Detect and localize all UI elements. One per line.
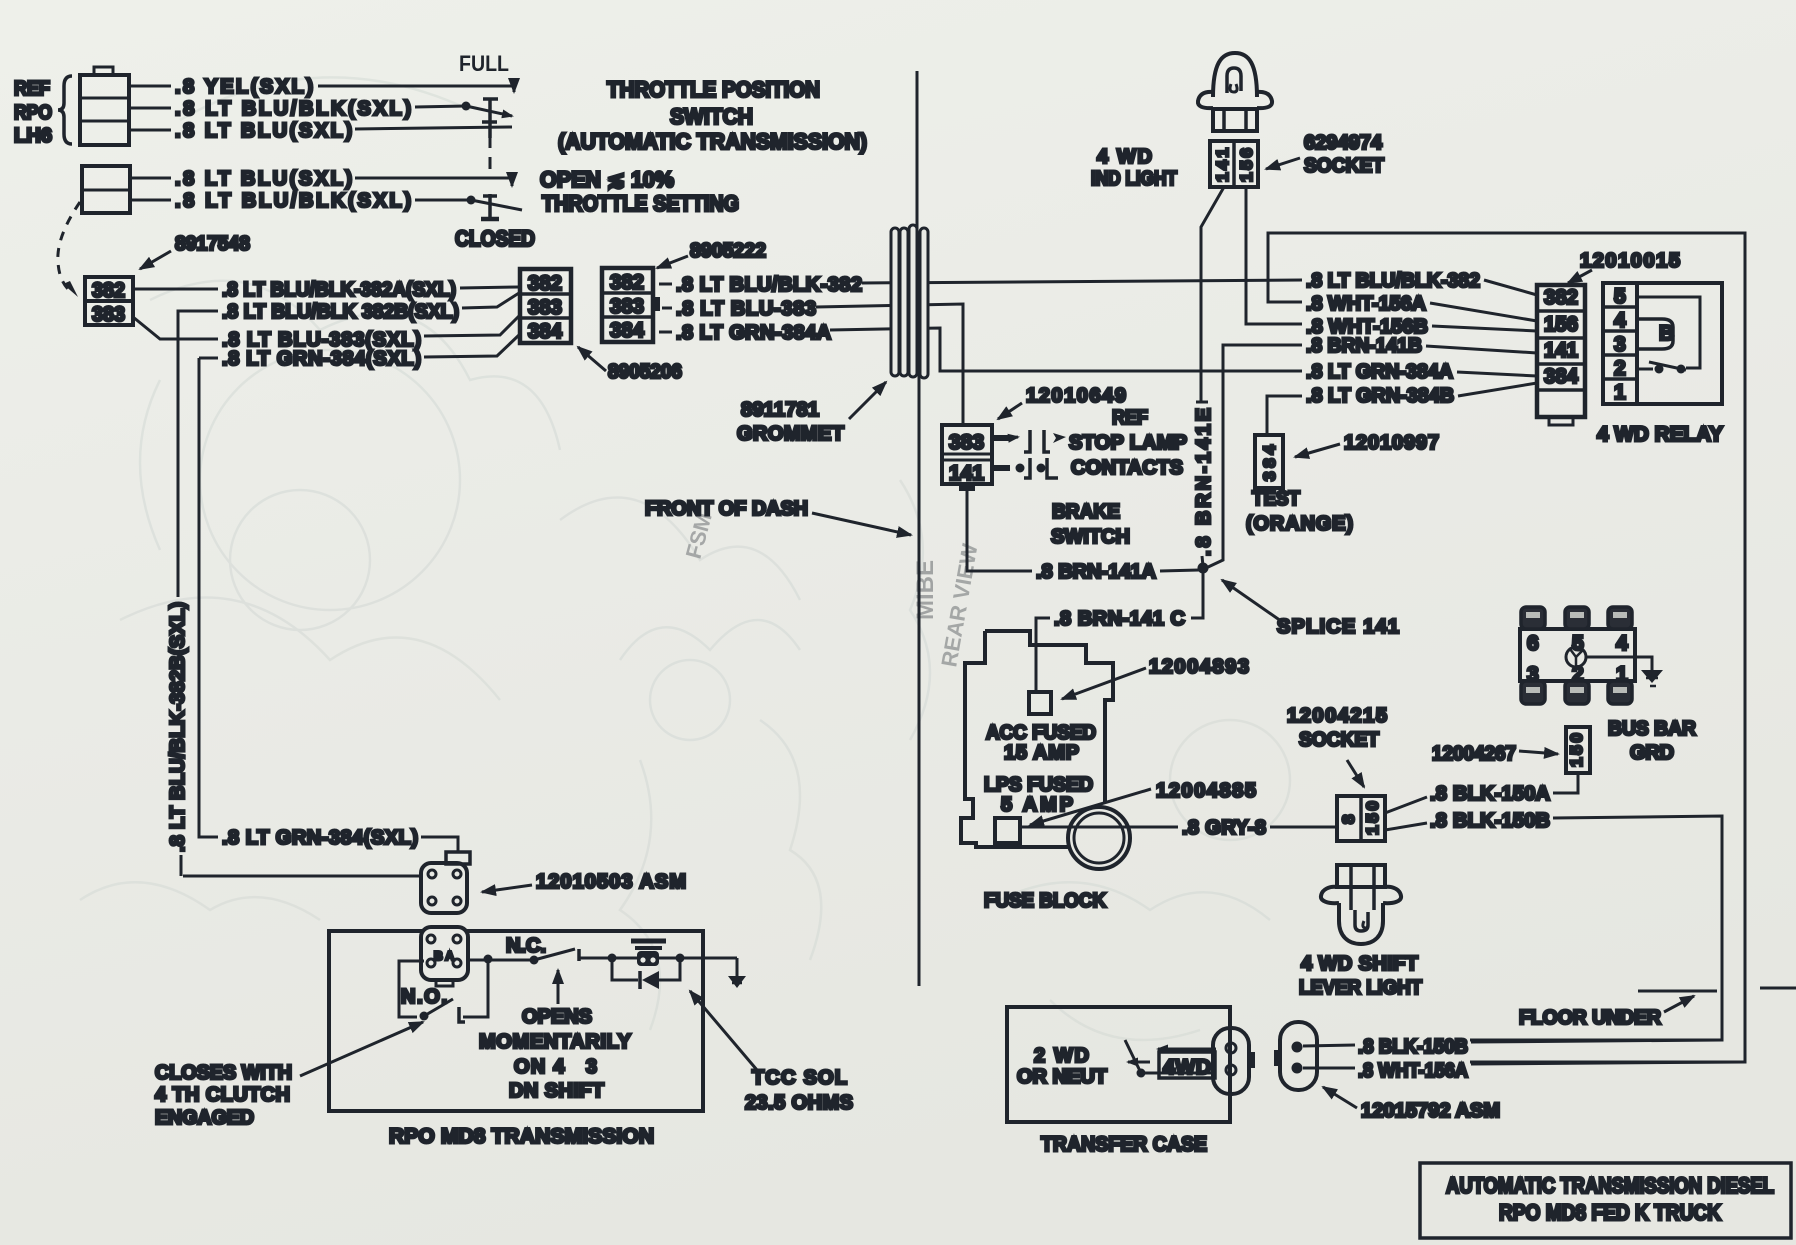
svg-text:383: 383: [528, 296, 562, 319]
svg-text:STOP LAMP: STOP LAMP: [1069, 432, 1187, 454]
svg-text:150: 150: [1567, 733, 1586, 767]
svg-text:RPO MD8 FED K TRUCK: RPO MD8 FED K TRUCK: [1499, 1200, 1721, 1225]
svg-text:SWITCH: SWITCH: [1051, 526, 1130, 548]
svg-text:AUTOMATIC TRANSMISSION DIESEL: AUTOMATIC TRANSMISSION DIESEL: [1446, 1173, 1774, 1198]
svg-text:(AUTOMATIC TRANSMISSION): (AUTOMATIC TRANSMISSION): [558, 129, 867, 154]
busbar ground block: [1520, 607, 1635, 704]
solenoid TCC: [608, 941, 685, 966]
wire main line to N.C.: [468, 959, 530, 962]
svg-text:384: 384: [528, 320, 562, 343]
ground from busbar: [1586, 657, 1652, 670]
wire front-of-dash vertical: [916, 71, 919, 231]
svg-text:8905206: 8905206: [608, 361, 682, 383]
wire .8 BRN-141 C: [1191, 573, 1203, 618]
svg-text:.8 BRN-141 C: .8 BRN-141 C: [1054, 608, 1185, 630]
svg-text:3: 3: [1527, 663, 1539, 686]
wire 384B from TEST: [1267, 396, 1302, 435]
svg-text:LEVER LIGHT: LEVER LIGHT: [1299, 977, 1422, 999]
brace: [58, 76, 72, 144]
ground: [728, 958, 746, 988]
svg-text:OR NEUT: OR NEUT: [1017, 1066, 1107, 1088]
svg-text:B A: B A: [434, 949, 454, 963]
svg-text:4: 4: [1614, 309, 1626, 332]
connector TEST (ORANGE) 384: [1255, 435, 1283, 488]
svg-text:FUSE BLOCK: FUSE BLOCK: [984, 890, 1107, 912]
svg-text:141: 141: [949, 462, 984, 485]
svg-text:150: 150: [1363, 801, 1382, 835]
svg-text:CLOSED: CLOSED: [455, 226, 535, 251]
wire 141B riser: [1206, 345, 1302, 568]
transfer case box: [1007, 1007, 1230, 1122]
svg-text:12010503 ASM: 12010503 ASM: [536, 871, 686, 893]
connector 382: [85, 277, 133, 302]
wire 156A loop top: [1268, 233, 1745, 1062]
connector 8905222: [602, 268, 660, 342]
svg-text:SOCKET: SOCKET: [1304, 155, 1384, 177]
svg-text:TEST: TEST: [1252, 488, 1300, 510]
svg-text:8911781: 8911781: [741, 399, 819, 421]
svg-text:.8 WHT-156A: .8 WHT-156A: [1306, 293, 1426, 315]
switch N.O.: [401, 963, 488, 1022]
svg-text:.8 BLK-150B: .8 BLK-150B: [1430, 810, 1550, 832]
fuse block outline: [985, 631, 1113, 803]
diode (TCC bypass): [612, 958, 680, 989]
wire .8 LT BLU(SXL) row3: [129, 129, 171, 132]
svg-text:.8 LT GRN-384B: .8 LT GRN-384B: [1306, 385, 1454, 407]
svg-text:156: 156: [1237, 148, 1256, 182]
svg-text:OPEN ≲ 10%: OPEN ≲ 10%: [540, 167, 674, 192]
connector transmission (BA): [421, 927, 468, 986]
svg-text:4 WD: 4 WD: [1097, 146, 1152, 168]
svg-text:4 WD RELAY: 4 WD RELAY: [1597, 423, 1723, 446]
svg-text:2 WD: 2 WD: [1034, 1045, 1089, 1067]
svg-text:12015792 ASM: 12015792 ASM: [1361, 1100, 1500, 1122]
wire .8 BRN-141A: [959, 484, 975, 491]
svg-text:1: 1: [1616, 663, 1628, 686]
title box: [1420, 1163, 1791, 1238]
svg-text:384: 384: [1544, 365, 1578, 388]
svg-text:382: 382: [528, 272, 562, 295]
svg-text:RPO: RPO: [14, 102, 52, 124]
svg-text:.8 BLK-150A: .8 BLK-150A: [1430, 783, 1550, 805]
svg-text:MIBE: MIBE: [912, 560, 939, 620]
svg-text:12010015: 12010015: [1580, 250, 1680, 272]
wire 383 to brake switch: [816, 304, 963, 425]
svg-text:6: 6: [1527, 632, 1539, 655]
svg-text:8: 8: [1339, 815, 1358, 824]
svg-text:MOMENTARILY: MOMENTARILY: [479, 1031, 632, 1053]
svg-text:.8 LT BLU/BLK-382: .8 LT BLU/BLK-382: [1306, 270, 1480, 292]
wire floor under line: [1638, 990, 1717, 993]
svg-text:.8 LT BLU(SXL): .8 LT BLU(SXL): [175, 168, 352, 190]
wire .8 LT BLU/BLK-382A(SXL): [133, 288, 218, 291]
svg-text:SOCKET: SOCKET: [1299, 729, 1379, 751]
svg-text:.8 BRN-141E: .8 BRN-141E: [1193, 408, 1215, 556]
wire .8 LT BLU-383 label: [662, 307, 672, 310]
wire .8 BLK-150A: [1385, 797, 1427, 813]
svg-text:4 TH CLUTCH: 4 TH CLUTCH: [155, 1084, 290, 1106]
svg-text:12004885: 12004885: [1156, 780, 1256, 802]
svg-text:5: 5: [1614, 285, 1626, 308]
lamp 4WD shift lever light: [1321, 865, 1401, 944]
svg-text:RPO MD8 TRANSMISSION: RPO MD8 TRANSMISSION: [389, 1125, 654, 1148]
svg-text:GRD: GRD: [1630, 742, 1674, 764]
svg-text:.8 BRN-141B: .8 BRN-141B: [1306, 335, 1422, 357]
svg-text:382: 382: [1544, 286, 1578, 309]
connector C2: [82, 166, 130, 213]
svg-text:CLOSES WITH: CLOSES WITH: [155, 1062, 292, 1084]
svg-text:.8 LT GRN-384(SXL): .8 LT GRN-384(SXL): [222, 348, 421, 370]
svg-text:N.C.: N.C.: [506, 935, 546, 957]
svg-text:REF: REF: [14, 78, 50, 100]
relay U1 4WD RELAY: [1603, 283, 1722, 404]
svg-text:382: 382: [92, 279, 125, 302]
wire to ground (transmission): [680, 957, 737, 960]
transmission box RPO MD8: [329, 931, 703, 1111]
svg-text:ACC FUSED: ACC FUSED: [986, 722, 1096, 744]
svg-text:12010649: 12010649: [1026, 385, 1126, 407]
svg-text:BUS BAR: BUS BAR: [1608, 718, 1697, 740]
svg-text:12004893: 12004893: [1149, 656, 1249, 678]
svg-text:OPENS: OPENS: [522, 1006, 592, 1028]
svg-text:141: 141: [1544, 339, 1578, 362]
wire off-page right: [1760, 987, 1796, 990]
svg-text:BRAKE: BRAKE: [1052, 501, 1120, 523]
svg-text:156: 156: [1544, 313, 1578, 336]
connector 12004215 socket (8/150): [1337, 796, 1385, 841]
svg-text:TCC SOL: TCC SOL: [752, 1067, 847, 1089]
svg-text:FLOOR UNDER: FLOOR UNDER: [1519, 1007, 1662, 1029]
svg-text:THROTTLE POSITION: THROTTLE POSITION: [607, 77, 820, 102]
wire dashed throttle switch link: [489, 136, 492, 175]
svg-text:.8 LT BLU/BLK(SXL): .8 LT BLU/BLK(SXL): [175, 98, 411, 120]
dashed arc from C2 to connector 382: [58, 202, 80, 291]
wire 384A long: [830, 328, 1302, 371]
svg-text:B: B: [1659, 322, 1674, 345]
svg-text:.8 LT BLU/BLK-382B(SXL): .8 LT BLU/BLK-382B(SXL): [167, 602, 189, 852]
svg-text:(ORANGE): (ORANGE): [1246, 513, 1353, 535]
brake switch contacts: [992, 430, 1066, 478]
svg-text:383: 383: [92, 303, 125, 326]
svg-text:.8 BLK-150B: .8 BLK-150B: [1358, 1036, 1468, 1058]
svg-text:THROTTLE SETTING: THROTTLE SETTING: [542, 191, 739, 216]
svg-text:4 WD SHIFT: 4 WD SHIFT: [1301, 953, 1418, 975]
wire .8 LT BLU-383(SXL): [133, 317, 218, 339]
svg-text:FRONT OF DASH: FRONT OF DASH: [645, 498, 808, 520]
wire .8 LT GRN-384(SXL): [199, 357, 218, 360]
svg-text:LH6: LH6: [14, 125, 52, 147]
connector brake switch: [942, 425, 992, 485]
throttle position switch upper contact: [462, 98, 513, 138]
wire .8 BLK-150B (transfer): [1303, 1045, 1355, 1046]
wire .8 GRY-8: [1020, 826, 1178, 829]
wire 382 long: [862, 280, 1302, 283]
svg-text:4: 4: [1616, 632, 1628, 655]
wire .8 LT BLU(SXL) row4: [130, 177, 171, 180]
svg-text:5 AMP: 5 AMP: [1001, 794, 1073, 816]
throttle position switch lower contact: [467, 194, 523, 219]
svg-text:SWITCH: SWITCH: [670, 104, 753, 129]
svg-text:12004267: 12004267: [1432, 743, 1516, 765]
svg-text:383: 383: [610, 295, 644, 318]
wire .8 LT BLU/BLK(SXL) row2: [129, 107, 171, 110]
svg-text:383: 383: [949, 431, 984, 454]
wire .8 WHT-156A (transfer): [1303, 1067, 1355, 1070]
svg-text:384: 384: [1260, 444, 1279, 481]
svg-text:.8 WHT-156A: .8 WHT-156A: [1358, 1060, 1468, 1082]
svg-text:DN SHIFT: DN SHIFT: [509, 1080, 604, 1102]
wire .8 LT BLU/BLK 382B(SXL): [178, 311, 218, 597]
svg-text:1: 1: [1614, 381, 1626, 404]
wire 141 socket drop: [1201, 187, 1224, 403]
svg-text:TRANSFER CASE: TRANSFER CASE: [1041, 1133, 1207, 1156]
svg-text:ON 4 3: ON 4 3: [514, 1056, 597, 1078]
svg-text:GROMMET: GROMMET: [737, 423, 844, 445]
grommet 8911781: [891, 225, 928, 378]
svg-text:.8 GRY-8: .8 GRY-8: [1182, 817, 1266, 839]
svg-text:REF: REF: [1112, 407, 1148, 429]
svg-text:2: 2: [1614, 357, 1626, 380]
svg-text:382: 382: [610, 271, 644, 294]
svg-text:.8 LT BLU(SXL): .8 LT BLU(SXL): [175, 120, 352, 142]
lamp 4WD IND LIGHT bulb: [1198, 53, 1272, 131]
connector 12004267 (150): [1566, 727, 1590, 773]
connector 12010015: [1537, 285, 1585, 425]
wire .8 YEL(SXL): [129, 85, 171, 88]
svg-text:12004215: 12004215: [1287, 705, 1387, 727]
svg-text:12010997: 12010997: [1344, 432, 1439, 454]
svg-text:.8 LT BLU/BLK-382: .8 LT BLU/BLK-382: [676, 274, 862, 296]
svg-text:23.5 OHMS: 23.5 OHMS: [745, 1092, 853, 1114]
svg-text:.8 YEL(SXL): .8 YEL(SXL): [175, 76, 313, 98]
pin LPS fuse cavity: [995, 818, 1020, 843]
svg-text:3: 3: [1614, 333, 1626, 356]
switch lever (transfer case): [1125, 1040, 1216, 1078]
svg-text:15 AMP: 15 AMP: [1004, 742, 1079, 764]
wire N.O. loop: [399, 961, 424, 1017]
wire into ASM left: [183, 875, 421, 878]
svg-text:.8 LT GRN-384A: .8 LT GRN-384A: [676, 322, 831, 344]
svg-text:4WD: 4WD: [1163, 1056, 1211, 1079]
wire .8 LT GRN-384A label: [659, 331, 672, 334]
connector oval 12015792: [1274, 1022, 1317, 1090]
connector 12010503 ASM: [421, 852, 470, 913]
svg-text:8917548: 8917548: [175, 233, 250, 255]
connector C1 (REF/RPO/LH6): [80, 67, 129, 145]
switch N.C.: [506, 935, 610, 965]
connector oval (transfer case side): [1213, 1028, 1255, 1094]
svg-text:.8 LT BLU/BLK-382A(SXL): .8 LT BLU/BLK-382A(SXL): [222, 279, 456, 301]
svg-text:8905222: 8905222: [690, 240, 766, 262]
connector 6294974 socket: [1210, 141, 1258, 187]
node splice 141: [1198, 563, 1209, 574]
svg-text:FULL: FULL: [459, 51, 509, 76]
svg-text:.8 LT BLU/BLK 382B(SXL): .8 LT BLU/BLK 382B(SXL): [222, 301, 459, 323]
fuse block bulb circle: [1068, 807, 1130, 869]
wire .8 LT BLU/BLK(SXL) row5: [130, 199, 171, 202]
connector 8905206: [520, 269, 571, 343]
svg-text:.8 LT GRN-384(SXL): .8 LT GRN-384(SXL): [222, 827, 418, 849]
svg-text:141: 141: [1213, 148, 1232, 182]
svg-text:ENGAGED: ENGAGED: [155, 1107, 254, 1129]
pin ACC fuse cavity: [1029, 692, 1051, 714]
svg-text:SPLICE 141: SPLICE 141: [1277, 616, 1399, 638]
svg-text:IND LIGHT: IND LIGHT: [1091, 168, 1177, 190]
svg-text:384: 384: [610, 319, 644, 342]
svg-text:LPS FUSED: LPS FUSED: [984, 774, 1093, 796]
svg-text:.8 LT BLU/BLK(SXL): .8 LT BLU/BLK(SXL): [175, 190, 411, 212]
svg-text:.8 LT BLU-383: .8 LT BLU-383: [676, 298, 816, 320]
svg-text:CONTACTS: CONTACTS: [1071, 457, 1183, 479]
text 4WD boxed: [1159, 1052, 1215, 1079]
wire 156 socket drop: [1246, 187, 1302, 324]
connector 383: [85, 301, 133, 326]
svg-text:6294974: 6294974: [1304, 132, 1383, 154]
svg-text:.8 BRN-141A: .8 BRN-141A: [1036, 561, 1156, 583]
wire .8 BLK-150B (to floor): [1385, 823, 1427, 830]
svg-text:.8 LT GRN-384A: .8 LT GRN-384A: [1306, 361, 1453, 383]
wire .8 LT BLU/BLK-382: [659, 283, 672, 286]
